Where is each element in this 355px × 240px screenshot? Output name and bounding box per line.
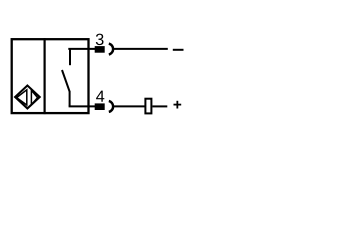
sensor symbol left triangle xyxy=(17,90,27,105)
inductive sensor symbol diamond xyxy=(15,86,40,109)
wire pin 3 to minus terminal xyxy=(113,48,168,50)
wire load to plus terminal xyxy=(152,105,167,107)
wire from switch to pin 3 xyxy=(68,48,96,50)
minus terminal xyxy=(173,49,184,51)
switch fixed contact xyxy=(69,49,71,65)
load resistor xyxy=(145,99,151,114)
switch lower terminal xyxy=(69,91,71,106)
connector pin 4 plug symbol xyxy=(95,101,113,112)
sensor body divider xyxy=(43,38,45,114)
wire from switch to pin 4 xyxy=(69,105,96,107)
connector pin 3 plug symbol xyxy=(95,44,113,55)
plus terminal xyxy=(174,101,182,109)
sensor symbol right triangle xyxy=(31,90,37,104)
switch blade (NO contact) xyxy=(62,70,70,92)
pin 4 label xyxy=(96,91,104,102)
wire pin 4 to load xyxy=(113,105,145,107)
sensor body outline xyxy=(12,39,89,113)
pin 3 label xyxy=(96,34,104,46)
